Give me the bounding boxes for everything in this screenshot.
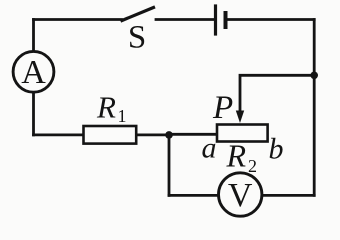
wire node to slider P: [240, 75, 314, 113]
resistor R1 body: [84, 126, 137, 144]
node junction dot right: [310, 72, 318, 80]
wire left rail upper: [32, 20, 35, 52]
svg-text:a: a: [202, 131, 217, 164]
svg-text:1: 1: [118, 106, 127, 126]
wire right rail: [313, 20, 316, 196]
arrowhead of slider P: [236, 111, 244, 124]
battery short plate: [224, 13, 228, 27]
voltmeter V circle: [219, 173, 262, 216]
svg-text:P: P: [212, 90, 233, 126]
wire left to R1: [34, 133, 84, 136]
svg-text:R: R: [96, 90, 116, 125]
battery long plate: [214, 6, 217, 34]
wire R1 to node: [136, 133, 169, 136]
wire top-left segment: [34, 18, 122, 21]
wire switch to battery: [156, 18, 214, 21]
wire left rail lower: [32, 92, 35, 135]
node junction dot left: [165, 131, 173, 139]
wire battery to top-right corner: [228, 18, 315, 21]
wire bottom to voltmeter: [169, 194, 218, 197]
switch S lever: [122, 8, 154, 21]
svg-text:V: V: [228, 177, 253, 214]
wire voltmeter to right rail: [262, 194, 314, 197]
wire node down to bottom: [168, 135, 171, 196]
svg-text:b: b: [269, 133, 284, 166]
svg-text:A: A: [21, 54, 46, 91]
svg-text:S: S: [128, 20, 146, 56]
ammeter A circle: [13, 51, 54, 92]
svg-text:2: 2: [248, 156, 257, 176]
svg-text:R: R: [226, 138, 247, 174]
wire node to R2 terminal a: [169, 133, 217, 136]
resistor R2 body (potentiometer): [217, 125, 268, 142]
